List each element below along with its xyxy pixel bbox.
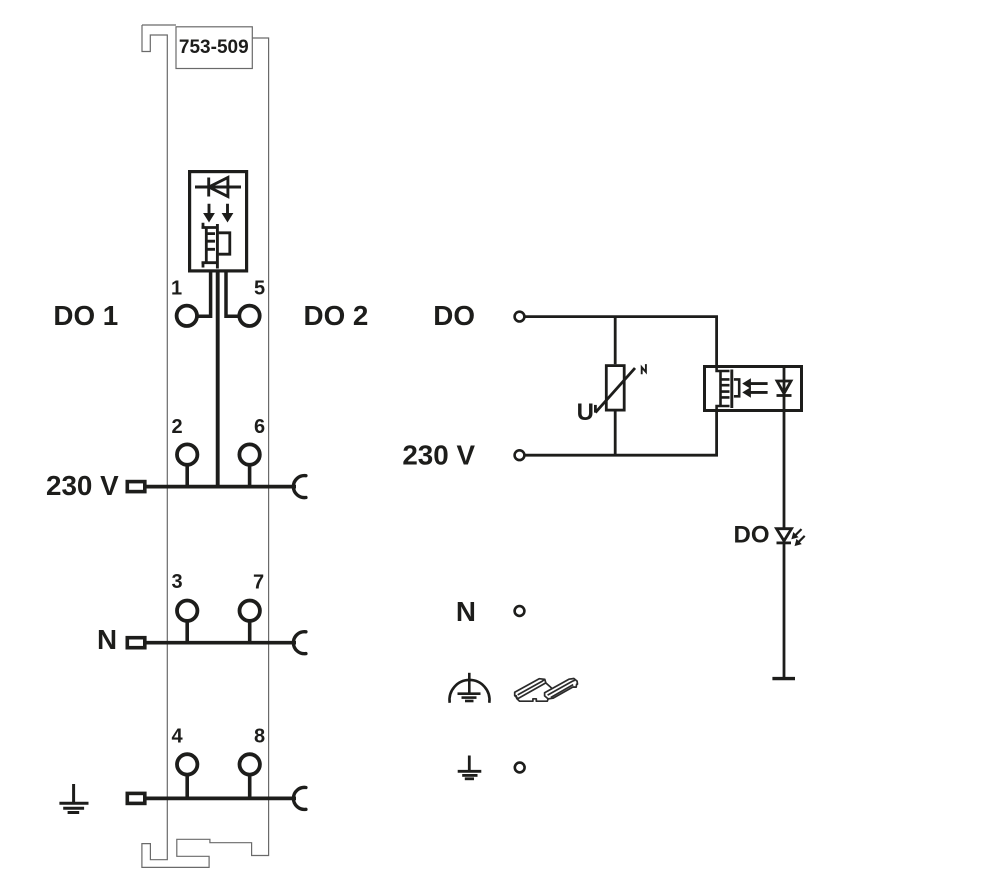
connector plug 230V [127, 482, 145, 492]
DIN carrier rail icon [515, 679, 578, 702]
svg-text:5: 5 [254, 278, 265, 300]
wire 230V [526, 412, 717, 455]
terminal point DO [515, 312, 525, 322]
termination bar [772, 677, 795, 680]
terminal 5 [239, 306, 259, 326]
wire LED to termination [783, 543, 786, 679]
svg-text:N: N [97, 624, 117, 655]
light arrows (down) of opto-coupler U1 [204, 204, 233, 222]
wire varistor branch [614, 317, 617, 456]
wire stub terminal 2 [185, 464, 189, 487]
photo-MOS output of U1 (ladder + gate + bracket) [202, 223, 230, 269]
wire stub terminal 8 [248, 774, 252, 798]
socket contact C N [293, 632, 305, 654]
svg-text:230 V: 230 V [402, 440, 475, 471]
terminal 2 [177, 444, 197, 464]
svg-text:DO 1: DO 1 [53, 300, 118, 331]
opto-coupler U2 box (field schematic) [705, 367, 802, 411]
svg-text:U: U [577, 399, 594, 426]
wire pin5 from U1 to terminal 5 [226, 272, 240, 316]
wire stub terminal 7 [248, 620, 252, 643]
wire pin1 from U1 to terminal 1 [197, 272, 211, 316]
svg-text:4: 4 [171, 726, 183, 748]
module outline 753-509 body [142, 25, 269, 867]
terminal 6 [239, 444, 259, 464]
wire stub terminal 3 [185, 620, 189, 643]
terminal point 230V [515, 450, 525, 460]
svg-text:DO: DO [433, 300, 475, 331]
svg-text:7: 7 [253, 572, 264, 594]
ground symbol (module earth row) [59, 784, 88, 813]
label box 753-509 [176, 27, 252, 69]
wire common from U1 to 230V rail [216, 272, 220, 487]
socket contact C 230V [293, 476, 305, 498]
wire earth rail [147, 797, 297, 801]
connector plug earth [127, 793, 145, 803]
light arrows (left) of U2 [743, 379, 767, 397]
terminal 7 [240, 601, 260, 621]
svg-text:DO: DO [734, 522, 770, 549]
svg-text:6: 6 [254, 416, 265, 438]
svg-text:1: 1 [171, 278, 182, 300]
terminal point earth [515, 763, 525, 773]
diode D2 (inside U2, pointing down) [777, 365, 792, 412]
connector plug N [127, 638, 145, 648]
opto-coupler U1 box (module internal symbol) [190, 172, 247, 271]
wire stub terminal 4 [185, 774, 189, 798]
varistor RU [595, 366, 635, 413]
functional earth symbol (arc) [450, 673, 490, 703]
LED DO indicator [777, 529, 792, 543]
diode D1 (internal, pointing left) [195, 178, 241, 197]
svg-text:230 V: 230 V [46, 470, 119, 501]
varistor tick mark [642, 364, 646, 374]
wire DO [526, 317, 717, 365]
wire stub terminal 6 [248, 464, 252, 487]
svg-text:2: 2 [171, 416, 182, 438]
wire from U2 down to LED [783, 412, 786, 529]
terminal 3 [177, 601, 197, 621]
svg-text:DO 2: DO 2 [304, 300, 369, 331]
LED emission arrows [792, 529, 805, 545]
photo-MOS output of U2 (ladder + gate + bracket) [717, 365, 740, 412]
svg-text:8: 8 [254, 726, 265, 748]
wire 230V rail [147, 485, 297, 489]
svg-text:753-509: 753-509 [179, 37, 249, 58]
wire N rail [147, 641, 297, 645]
earth symbol (field side bottom) [458, 756, 482, 779]
terminal 1 [177, 306, 197, 326]
svg-text:3: 3 [171, 571, 182, 593]
terminal 4 [177, 754, 197, 774]
terminal 8 [240, 754, 260, 774]
socket contact C earth [293, 787, 305, 809]
terminal point N [515, 606, 525, 616]
svg-text:N: N [456, 596, 476, 627]
